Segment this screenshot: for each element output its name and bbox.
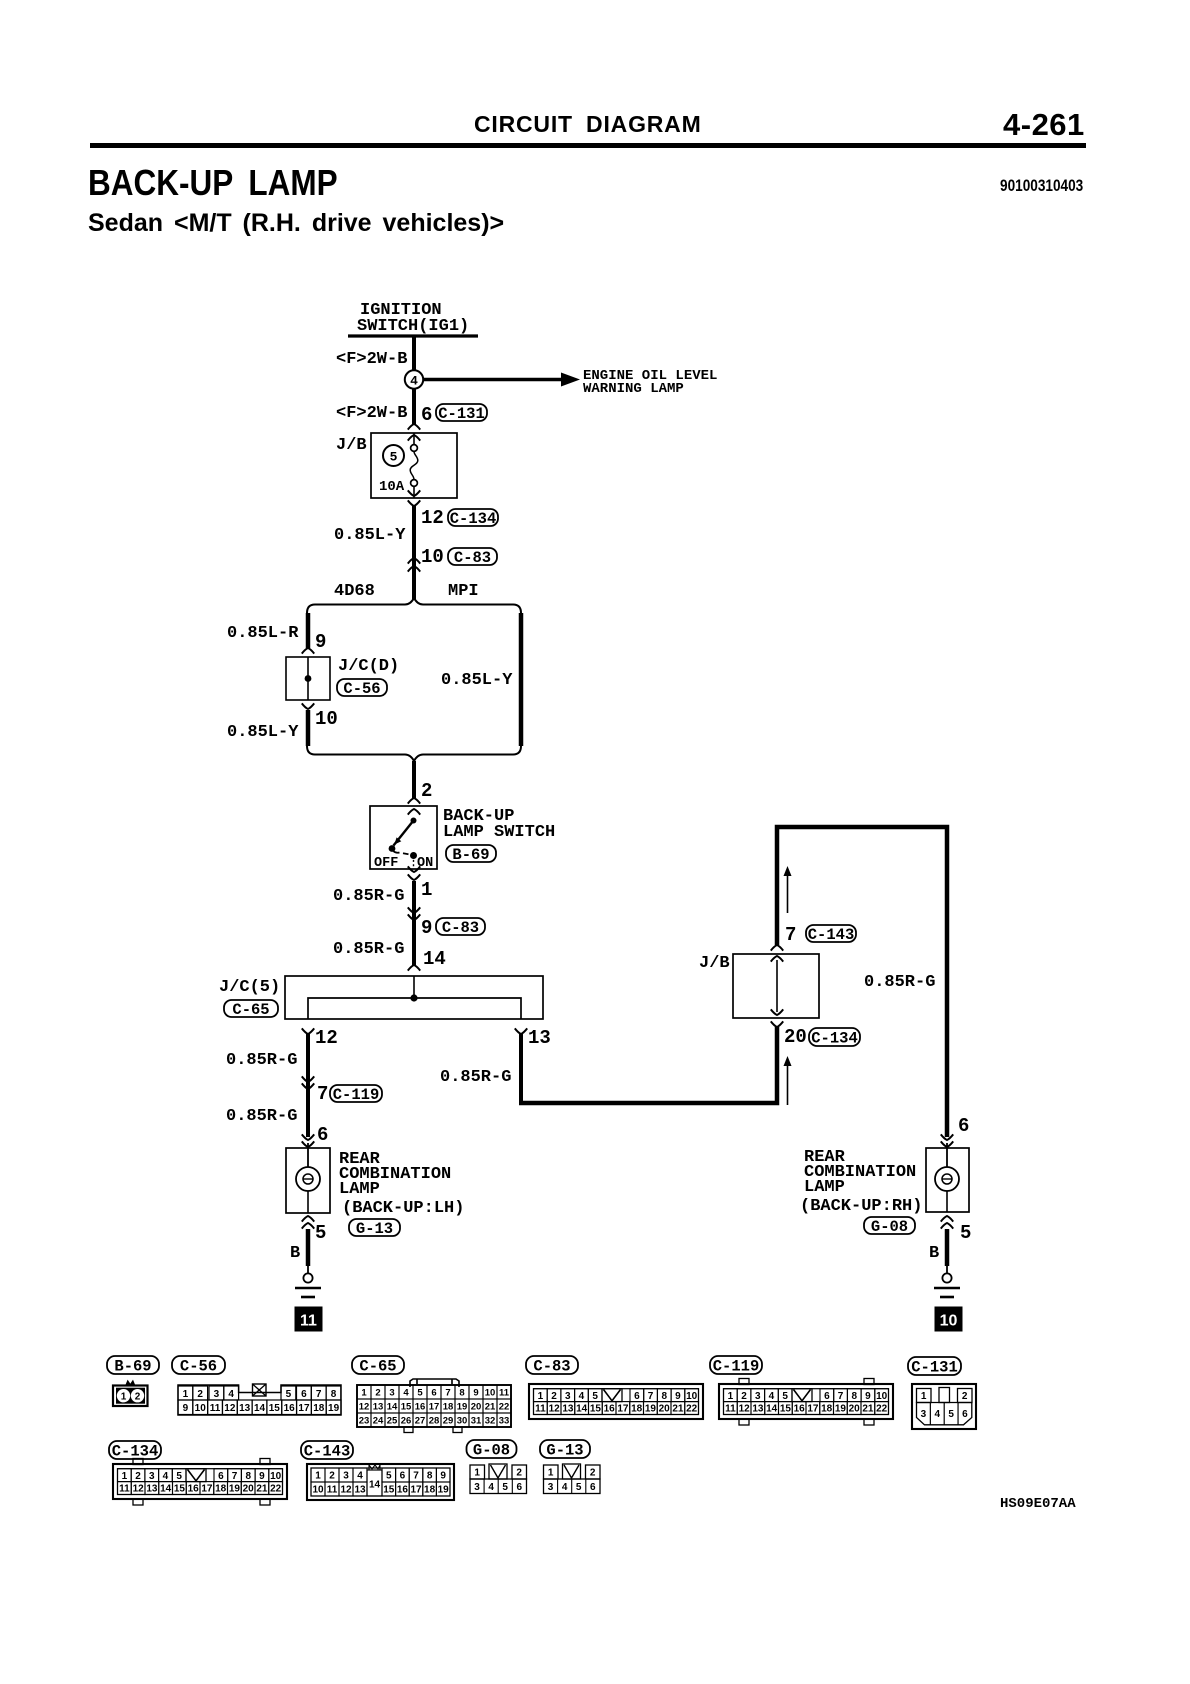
svg-text:C-143: C-143 bbox=[304, 1442, 351, 1460]
wire: ignition switch to J/B fuse, x=414 bbox=[412, 337, 416, 424]
connector G-08 pinout bbox=[470, 1465, 485, 1479]
title BACK-UP LAMP bbox=[88, 162, 338, 204]
svg-text:J/B: J/B bbox=[336, 436, 367, 455]
svg-text:16: 16 bbox=[415, 1401, 426, 1412]
svg-text:4D68: 4D68 bbox=[334, 582, 375, 601]
fuse element bbox=[413, 433, 415, 445]
svg-text:9: 9 bbox=[421, 917, 432, 939]
bulb RH bbox=[946, 1143, 948, 1167]
connector C-56 pinout label bbox=[172, 1356, 225, 1374]
svg-text:22: 22 bbox=[270, 1484, 282, 1495]
connector G-13 inline label bbox=[349, 1219, 400, 1236]
svg-text:6: 6 bbox=[431, 1387, 436, 1398]
svg-text:2: 2 bbox=[590, 1468, 596, 1479]
svg-text:25: 25 bbox=[387, 1415, 398, 1426]
svg-text:20: 20 bbox=[849, 1404, 861, 1415]
svg-text:18: 18 bbox=[215, 1484, 227, 1495]
connector C-131 pinout label bbox=[908, 1357, 961, 1375]
svg-text:MPI: MPI bbox=[448, 582, 479, 601]
svg-text:G-08: G-08 bbox=[871, 1218, 908, 1236]
svg-text:OFF: OFF bbox=[374, 856, 398, 871]
svg-text:15: 15 bbox=[401, 1401, 412, 1412]
svg-text:20: 20 bbox=[243, 1484, 255, 1495]
svg-text:31: 31 bbox=[471, 1415, 482, 1426]
svg-text:1: 1 bbox=[421, 879, 432, 901]
svg-text:2: 2 bbox=[135, 1391, 141, 1402]
back-up lamp switch B-69 box bbox=[370, 806, 437, 869]
svg-text:LAMP: LAMP bbox=[804, 1178, 845, 1197]
connector C-119 pinout bbox=[719, 1384, 893, 1419]
svg-text:J/B: J/B bbox=[699, 954, 730, 973]
svg-text:C-83: C-83 bbox=[442, 919, 479, 937]
ground symbol RH bbox=[942, 1273, 951, 1282]
svg-text:1: 1 bbox=[361, 1387, 367, 1398]
svg-text:5: 5 bbox=[390, 450, 398, 465]
svg-text:13: 13 bbox=[562, 1404, 574, 1415]
svg-text:26: 26 bbox=[401, 1415, 412, 1426]
wire: bottom horizontal run to J/B bbox=[519, 1027, 777, 1103]
svg-text:6: 6 bbox=[218, 1471, 224, 1482]
svg-text:C-134: C-134 bbox=[811, 1029, 858, 1047]
svg-text:3: 3 bbox=[149, 1471, 155, 1482]
svg-text:8: 8 bbox=[851, 1391, 857, 1402]
engine variant box bottom brace bbox=[307, 746, 521, 761]
connector G-13 pinout bbox=[544, 1465, 559, 1479]
svg-text:13: 13 bbox=[239, 1403, 251, 1414]
svg-text:3: 3 bbox=[474, 1482, 480, 1493]
chevrons into RH lamp bbox=[941, 1134, 953, 1140]
ground wire B LH bbox=[306, 1229, 311, 1266]
subtitle Sedan M/T bbox=[88, 209, 504, 238]
chevron into switch bbox=[408, 798, 420, 804]
svg-text:5: 5 bbox=[386, 1471, 392, 1482]
svg-text:14: 14 bbox=[576, 1404, 588, 1415]
svg-text:17: 17 bbox=[201, 1484, 213, 1495]
svg-text:0.85R-G: 0.85R-G bbox=[226, 1051, 297, 1070]
svg-text:0.85L-Y: 0.85L-Y bbox=[227, 723, 299, 742]
svg-text:10: 10 bbox=[195, 1403, 207, 1414]
svg-text:0.85R-G: 0.85R-G bbox=[440, 1068, 511, 1087]
svg-text:11: 11 bbox=[499, 1387, 510, 1398]
chevrons into LH lamp bbox=[302, 1134, 314, 1140]
svg-text:19: 19 bbox=[438, 1485, 450, 1496]
svg-text:10: 10 bbox=[315, 708, 338, 730]
engine variant box top brace bbox=[307, 598, 521, 613]
chevrons below LH lamp bbox=[302, 1216, 314, 1222]
svg-text:15: 15 bbox=[383, 1485, 395, 1496]
svg-text:2: 2 bbox=[962, 1391, 968, 1402]
connector C-134 top tabs bbox=[133, 1459, 143, 1465]
chevrons below switch bbox=[408, 866, 420, 872]
svg-text:2: 2 bbox=[421, 780, 432, 802]
svg-text:10: 10 bbox=[876, 1391, 888, 1402]
connector G-08 inline label bbox=[864, 1217, 915, 1234]
svg-text:12: 12 bbox=[739, 1404, 751, 1415]
svg-text:10: 10 bbox=[940, 1313, 958, 1330]
svg-text:2: 2 bbox=[329, 1471, 335, 1482]
svg-text:2: 2 bbox=[741, 1391, 747, 1402]
svg-text:8: 8 bbox=[459, 1387, 464, 1398]
switch OFF tail bbox=[393, 851, 400, 853]
wire 0.85L-Y right branch, x=521 bbox=[519, 613, 524, 746]
wire: engine box to back-up lamp switch bbox=[412, 761, 416, 798]
svg-text:6: 6 bbox=[317, 1124, 328, 1146]
wire: J/C(5) pin 12 to LH lamp, x=308 bbox=[306, 1034, 310, 1137]
svg-text:(BACK-UP:LH): (BACK-UP:LH) bbox=[342, 1199, 464, 1218]
switch pivot contact bbox=[411, 818, 417, 824]
svg-text:17: 17 bbox=[410, 1485, 422, 1496]
svg-text:13: 13 bbox=[146, 1484, 158, 1495]
svg-text:7: 7 bbox=[648, 1391, 654, 1402]
connector C-143 pinout label bbox=[301, 1441, 353, 1459]
svg-text:5: 5 bbox=[176, 1471, 182, 1482]
svg-text:C-131: C-131 bbox=[438, 405, 485, 423]
svg-text:7: 7 bbox=[316, 1389, 322, 1400]
connector C-143 inline label bbox=[806, 925, 856, 942]
svg-text:10: 10 bbox=[421, 546, 444, 568]
svg-text:9: 9 bbox=[865, 1391, 871, 1402]
svg-text:7: 7 bbox=[785, 924, 796, 946]
chevron into J/C(5) bbox=[408, 965, 420, 971]
connector C-83 pinout label bbox=[526, 1356, 578, 1374]
svg-text:7: 7 bbox=[232, 1471, 238, 1482]
connector C-119 bottom tabs bbox=[739, 1419, 749, 1425]
svg-text:3: 3 bbox=[389, 1387, 394, 1398]
svg-text:2: 2 bbox=[551, 1391, 557, 1402]
svg-text:1: 1 bbox=[315, 1471, 321, 1482]
svg-text:5: 5 bbox=[592, 1391, 598, 1402]
svg-text:J/C(5): J/C(5) bbox=[219, 978, 280, 997]
svg-text:17: 17 bbox=[617, 1404, 629, 1415]
svg-text:1: 1 bbox=[122, 1471, 128, 1482]
chevron out pin 12 bbox=[302, 1028, 314, 1034]
svg-text:1: 1 bbox=[183, 1389, 189, 1400]
svg-text:C-56: C-56 bbox=[180, 1357, 217, 1375]
svg-text:4: 4 bbox=[357, 1471, 363, 1482]
svg-text:5: 5 bbox=[576, 1482, 582, 1493]
svg-text:2: 2 bbox=[375, 1387, 380, 1398]
svg-text:9: 9 bbox=[473, 1387, 478, 1398]
svg-text:3: 3 bbox=[755, 1391, 761, 1402]
svg-text:2: 2 bbox=[197, 1389, 203, 1400]
svg-text:10: 10 bbox=[485, 1387, 496, 1398]
svg-text:18: 18 bbox=[443, 1401, 454, 1412]
svg-text:18: 18 bbox=[313, 1403, 325, 1414]
wire 0.85L-Y lower left bbox=[306, 710, 311, 746]
connector C-56 pinout bbox=[178, 1385, 341, 1415]
svg-text:16: 16 bbox=[284, 1403, 296, 1414]
svg-text:12: 12 bbox=[315, 1027, 338, 1049]
svg-text:B-69: B-69 bbox=[114, 1357, 151, 1375]
svg-text:21: 21 bbox=[862, 1404, 874, 1415]
ground symbol LH bbox=[303, 1273, 312, 1282]
svg-text:C-119: C-119 bbox=[713, 1357, 760, 1375]
svg-text:C-134: C-134 bbox=[112, 1442, 159, 1460]
svg-text:12: 12 bbox=[549, 1404, 561, 1415]
svg-text:0.85R-G: 0.85R-G bbox=[226, 1107, 297, 1126]
chevron out pin 13 bbox=[515, 1028, 527, 1034]
svg-text:3: 3 bbox=[343, 1471, 349, 1482]
svg-text:B: B bbox=[290, 1244, 300, 1263]
svg-text:15: 15 bbox=[174, 1484, 186, 1495]
svg-text:4: 4 bbox=[228, 1389, 234, 1400]
svg-text:19: 19 bbox=[328, 1403, 340, 1414]
chevrons at C-143 pin 7 bbox=[771, 945, 783, 951]
switch OFF contact bbox=[389, 845, 396, 852]
svg-text:5: 5 bbox=[417, 1387, 423, 1398]
chevron out of J/C(D) bbox=[302, 703, 314, 709]
svg-text:7: 7 bbox=[413, 1471, 419, 1482]
svg-text:J/C(D): J/C(D) bbox=[338, 657, 399, 676]
svg-text:11: 11 bbox=[725, 1404, 736, 1415]
svg-text:14: 14 bbox=[254, 1403, 266, 1414]
svg-text:0.85L-R: 0.85L-R bbox=[227, 624, 299, 643]
svg-text:6: 6 bbox=[301, 1389, 307, 1400]
svg-text:17: 17 bbox=[429, 1401, 440, 1412]
svg-text:12: 12 bbox=[421, 507, 444, 529]
svg-text:16: 16 bbox=[794, 1404, 806, 1415]
connector B-69 pinout label bbox=[107, 1356, 159, 1374]
svg-text:4: 4 bbox=[562, 1482, 568, 1493]
connector C-65 pinout bbox=[357, 1385, 511, 1427]
svg-text:21: 21 bbox=[256, 1484, 268, 1495]
connector C-143 pin 14 tall cell bbox=[367, 1470, 382, 1496]
svg-text:16: 16 bbox=[604, 1404, 616, 1415]
arrow to engine oil level warning lamp bbox=[423, 378, 563, 382]
svg-text:C-134: C-134 bbox=[450, 510, 497, 528]
switch blade bbox=[394, 821, 414, 846]
svg-text:9: 9 bbox=[675, 1391, 681, 1402]
svg-text:6: 6 bbox=[400, 1471, 406, 1482]
connector C-131 pinout bbox=[912, 1384, 976, 1429]
svg-text:0.85L-Y: 0.85L-Y bbox=[441, 671, 513, 690]
svg-text:2: 2 bbox=[135, 1471, 141, 1482]
svg-text:27: 27 bbox=[415, 1415, 426, 1426]
svg-text:6: 6 bbox=[634, 1391, 640, 1402]
svg-text:12: 12 bbox=[359, 1401, 370, 1412]
J/C(5) internal bus bbox=[413, 976, 415, 998]
svg-text:WARNING LAMP: WARNING LAMP bbox=[583, 381, 684, 397]
doc number 90100310403 bbox=[1000, 176, 1083, 196]
svg-text:9: 9 bbox=[440, 1471, 446, 1482]
svg-text:<F>2W-B: <F>2W-B bbox=[336, 350, 407, 369]
connector G-08 pinout label bbox=[467, 1440, 517, 1458]
connector chevrons above J/B bbox=[408, 424, 420, 430]
chevrons at C-83 pin 9 bbox=[408, 907, 420, 913]
switch blade arrowhead bbox=[394, 837, 401, 844]
connector C-143 pinout bbox=[307, 1464, 454, 1500]
svg-text:12: 12 bbox=[224, 1403, 236, 1414]
svg-text:6: 6 bbox=[958, 1115, 969, 1137]
svg-text:12: 12 bbox=[340, 1485, 352, 1496]
svg-text:<F>2W-B: <F>2W-B bbox=[336, 404, 407, 423]
svg-text:3: 3 bbox=[214, 1389, 220, 1400]
ground wire B RH bbox=[945, 1229, 950, 1266]
svg-text:5: 5 bbox=[315, 1222, 326, 1244]
connector G-13 pinout label bbox=[540, 1440, 590, 1458]
svg-text:4: 4 bbox=[579, 1391, 585, 1402]
svg-text:G-13: G-13 bbox=[546, 1441, 583, 1459]
wire: J/B to engine box, x=414 bbox=[412, 506, 416, 599]
svg-text:0.85R-G: 0.85R-G bbox=[864, 973, 935, 992]
svg-text:15: 15 bbox=[590, 1404, 602, 1415]
svg-text:3: 3 bbox=[565, 1391, 571, 1402]
wire 0.85L-R upper left, x=308 bbox=[306, 613, 311, 648]
connector C-56 inline label bbox=[337, 679, 387, 696]
rear combination lamp LH box bbox=[286, 1148, 330, 1213]
svg-text:8: 8 bbox=[661, 1391, 667, 1402]
svg-text:17: 17 bbox=[807, 1404, 819, 1415]
svg-text:22: 22 bbox=[686, 1404, 698, 1415]
svg-text:8: 8 bbox=[427, 1471, 433, 1482]
svg-text:7: 7 bbox=[445, 1387, 450, 1398]
svg-text:21: 21 bbox=[485, 1401, 496, 1412]
svg-text:C-56: C-56 bbox=[343, 680, 380, 698]
svg-text:33: 33 bbox=[499, 1415, 510, 1426]
svg-text:1: 1 bbox=[121, 1391, 127, 1402]
svg-text:10A: 10A bbox=[379, 479, 405, 495]
svg-text:1: 1 bbox=[474, 1468, 480, 1479]
wire: switch to J/C(5) bbox=[412, 881, 416, 965]
chevrons below RH lamp bbox=[941, 1216, 953, 1222]
svg-text:13: 13 bbox=[528, 1027, 551, 1049]
svg-text:5: 5 bbox=[502, 1482, 508, 1493]
svg-text:12: 12 bbox=[133, 1484, 145, 1495]
chevrons at C-134 pin 20 bbox=[771, 1009, 783, 1015]
svg-text:B-69: B-69 bbox=[452, 846, 489, 864]
svg-text:19: 19 bbox=[645, 1404, 657, 1415]
svg-text:19: 19 bbox=[229, 1484, 241, 1495]
connector C-65 pinout label bbox=[352, 1356, 404, 1374]
svg-text:5: 5 bbox=[782, 1391, 788, 1402]
connector C-65 retainer clip bbox=[410, 1379, 459, 1387]
connector chevrons at C-83 bbox=[408, 558, 420, 564]
svg-text:11: 11 bbox=[327, 1485, 338, 1496]
svg-text:24: 24 bbox=[373, 1415, 384, 1426]
svg-text:7: 7 bbox=[838, 1391, 844, 1402]
svg-text:28: 28 bbox=[429, 1415, 440, 1426]
svg-text:2: 2 bbox=[516, 1468, 522, 1479]
J/B junction block box bbox=[371, 433, 457, 498]
svg-text:C-83: C-83 bbox=[454, 549, 491, 567]
svg-text:1: 1 bbox=[538, 1391, 544, 1402]
svg-text:3: 3 bbox=[548, 1482, 554, 1493]
svg-text:19: 19 bbox=[835, 1404, 847, 1415]
svg-text:LAMP: LAMP bbox=[339, 1180, 380, 1199]
node 4 splice circle bbox=[405, 370, 423, 388]
svg-text:1: 1 bbox=[921, 1391, 927, 1402]
chevron into J/C(D) bbox=[302, 648, 314, 654]
connector C-119 top tabs bbox=[739, 1379, 749, 1385]
svg-text:LAMP SWITCH: LAMP SWITCH bbox=[443, 823, 555, 842]
connector chevrons below J/B bbox=[408, 490, 420, 496]
svg-text:4: 4 bbox=[488, 1482, 494, 1493]
bulb LH bbox=[307, 1143, 309, 1167]
direction arrow upper bbox=[787, 872, 789, 913]
svg-text:23: 23 bbox=[359, 1415, 370, 1426]
svg-text:6: 6 bbox=[590, 1482, 596, 1493]
svg-text:20: 20 bbox=[471, 1401, 482, 1412]
connector C-134 bottom tabs bbox=[133, 1499, 143, 1505]
svg-text:C-131: C-131 bbox=[911, 1358, 958, 1376]
svg-text:22: 22 bbox=[499, 1401, 510, 1412]
svg-text:13: 13 bbox=[373, 1401, 384, 1412]
svg-text:19: 19 bbox=[457, 1401, 468, 1412]
svg-text:5: 5 bbox=[960, 1222, 971, 1244]
ground reference box 10 bbox=[935, 1307, 962, 1331]
svg-text:C-65: C-65 bbox=[232, 1001, 269, 1019]
svg-text:0.85R-G: 0.85R-G bbox=[333, 887, 404, 906]
svg-text:6: 6 bbox=[421, 404, 432, 426]
svg-text:(BACK-UP:RH): (BACK-UP:RH) bbox=[800, 1197, 922, 1216]
svg-text:15: 15 bbox=[269, 1403, 281, 1414]
connector C-134 pinout bbox=[113, 1464, 287, 1499]
direction arrow lower bbox=[787, 1062, 789, 1105]
svg-text:11: 11 bbox=[210, 1403, 221, 1414]
svg-text:21: 21 bbox=[672, 1404, 684, 1415]
svg-text:29: 29 bbox=[443, 1415, 454, 1426]
svg-text:14: 14 bbox=[369, 1480, 381, 1491]
junction connector J/C(D) box bbox=[286, 657, 330, 700]
svg-text:32: 32 bbox=[485, 1415, 496, 1426]
svg-text:16: 16 bbox=[188, 1484, 200, 1495]
J/C(D) splice dot bbox=[305, 675, 312, 682]
header: CIRCUIT DIAGRAM bbox=[474, 111, 702, 138]
svg-text:4: 4 bbox=[410, 374, 418, 389]
svg-text:18: 18 bbox=[424, 1485, 436, 1496]
fuse 5 circle label bbox=[383, 445, 404, 466]
svg-text:14: 14 bbox=[766, 1404, 778, 1415]
svg-text:14: 14 bbox=[387, 1401, 398, 1412]
svg-text:G-13: G-13 bbox=[356, 1220, 393, 1238]
connector C-83 inline label 2 bbox=[436, 918, 485, 935]
svg-text:1: 1 bbox=[548, 1468, 554, 1479]
svg-text:22: 22 bbox=[876, 1404, 888, 1415]
switch ON contact bbox=[410, 852, 417, 859]
svg-text:9: 9 bbox=[315, 631, 326, 653]
connector C-134 inline label bbox=[448, 509, 498, 526]
svg-text:0.85L-Y: 0.85L-Y bbox=[334, 526, 406, 545]
svg-text:6: 6 bbox=[517, 1482, 523, 1493]
svg-text:9: 9 bbox=[259, 1471, 265, 1482]
svg-text:15: 15 bbox=[780, 1404, 792, 1415]
svg-text:18: 18 bbox=[821, 1404, 833, 1415]
svg-text:C-65: C-65 bbox=[359, 1357, 396, 1375]
header rule bbox=[90, 143, 1086, 148]
svg-text:17: 17 bbox=[298, 1403, 310, 1414]
header: page number 4-261 bbox=[1003, 107, 1085, 143]
svg-text:8: 8 bbox=[331, 1389, 337, 1400]
svg-text:11: 11 bbox=[535, 1404, 546, 1415]
rear combination lamp RH box bbox=[926, 1148, 969, 1212]
svg-text:HS09E07AA: HS09E07AA bbox=[1000, 1496, 1076, 1512]
svg-text:7: 7 bbox=[317, 1083, 328, 1105]
connector C-119 pinout label bbox=[710, 1356, 762, 1374]
ground reference box 11 bbox=[295, 1307, 322, 1331]
svg-text:4: 4 bbox=[403, 1387, 409, 1398]
junction connector J/C(5) box bbox=[285, 976, 543, 1019]
svg-text:5: 5 bbox=[286, 1389, 292, 1400]
svg-text:C-143: C-143 bbox=[808, 926, 855, 944]
connector C-119 inline label bbox=[330, 1085, 382, 1102]
svg-text:9: 9 bbox=[183, 1403, 189, 1414]
svg-text:C-83: C-83 bbox=[533, 1357, 570, 1375]
svg-text:13: 13 bbox=[354, 1485, 366, 1496]
wire: J/B up and across to RH lamp bbox=[777, 827, 947, 1137]
svg-text:1: 1 bbox=[728, 1391, 734, 1402]
svg-text:3: 3 bbox=[921, 1409, 927, 1420]
svg-text:13: 13 bbox=[752, 1404, 764, 1415]
